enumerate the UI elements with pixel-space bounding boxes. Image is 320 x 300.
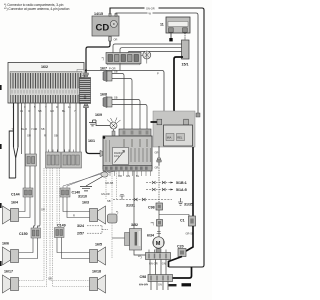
radio 16/1 main box xyxy=(103,136,152,169)
connector C1 box xyxy=(189,216,196,226)
thick wire C20 to junction node xyxy=(169,257,183,268)
wire junction to motor xyxy=(158,226,160,238)
wire from 16/2 pin m xyxy=(79,103,81,152)
svg-text:3/52: 3/52 xyxy=(131,223,138,227)
wire 3 into 16/15 xyxy=(128,51,182,53)
inline connector box A xyxy=(26,154,37,166)
svg-text:16/17: 16/17 xyxy=(4,269,13,273)
connector C140 xyxy=(60,188,70,197)
svg-text:2/57: 2/57 xyxy=(77,232,84,236)
svg-text:31/35: 31/35 xyxy=(184,202,193,206)
svg-text:6/34: 6/34 xyxy=(147,233,154,237)
svg-text:SB: SB xyxy=(107,199,111,203)
CD changer unit 14/15 xyxy=(92,16,119,36)
wire from 16/2 pin d xyxy=(29,103,31,188)
edge mark 1 xyxy=(0,85,2,90)
svg-text:C1: C1 xyxy=(180,219,185,223)
wire from 16/2 pin g xyxy=(45,103,47,152)
antenna amplifier unit shaded box xyxy=(153,111,195,147)
4-pin junction box xyxy=(157,220,163,227)
svg-text:BL: BL xyxy=(136,174,140,178)
speaker 16/5 wires xyxy=(57,238,90,259)
speaker 16/17 xyxy=(3,275,19,293)
twisted pair dotted wires column 1b xyxy=(50,168,53,287)
inline connector pair on ground rail xyxy=(134,198,146,201)
svg-text:5/1A:5: 5/1A:5 xyxy=(176,188,187,192)
connector C20 box xyxy=(178,249,186,257)
wire label W xyxy=(148,11,153,16)
wire 2 into 16/15 xyxy=(120,48,182,53)
radio 16/1 junction dot xyxy=(103,136,106,139)
wire below 3-pin strip xyxy=(119,64,121,71)
speaker 16/6 xyxy=(3,247,19,265)
svg-text:OR: OR xyxy=(118,174,122,178)
antenna lead wire down to radio xyxy=(86,108,100,154)
twisted pair dotted wires column 2 xyxy=(57,168,60,228)
wire switch up xyxy=(133,213,135,229)
wire from 16/2 pin b2 xyxy=(21,103,23,154)
wire from 16/2 pin h xyxy=(51,103,53,152)
svg-text:31/10: 31/10 xyxy=(78,195,87,199)
wire P-OR from junction to antenna unit xyxy=(86,71,164,114)
arrow glyph inside filter xyxy=(84,95,86,99)
shielded pair converge xyxy=(14,147,19,178)
wire from 16/2 pin i xyxy=(57,103,59,152)
wires below bar 2 xyxy=(151,282,168,291)
svg-text:16/1: 16/1 xyxy=(88,139,95,143)
wire from 16/2 pin c xyxy=(24,103,26,188)
wire into switch left xyxy=(112,237,125,239)
connector pair below antenna filter xyxy=(84,104,87,106)
ground point 31/31 symbol xyxy=(120,195,125,200)
edge mark 3 xyxy=(0,203,2,208)
wires from 16/8 to radio xyxy=(112,100,140,130)
wire from 16/2 pin e xyxy=(34,103,35,230)
ticks above connector boxes xyxy=(49,150,74,153)
antenna cable shield filter component xyxy=(80,78,91,104)
connector 16/15 xyxy=(182,40,190,59)
branch wire to C1 xyxy=(159,215,189,217)
dotted wire from radio pin 1 xyxy=(105,171,107,199)
speaker 16/18 xyxy=(90,275,106,293)
svg-text:16/5: 16/5 xyxy=(95,242,102,246)
suppressor on dotted wire xyxy=(108,214,118,223)
svg-text:C140: C140 xyxy=(72,190,81,194)
svg-text:14/15: 14/15 xyxy=(94,12,103,16)
connector plug 16/7 xyxy=(103,71,112,82)
svg-text:16/6: 16/6 xyxy=(2,241,9,245)
connector pair above antenna filter xyxy=(84,73,89,75)
connector block 16/2 side tab lower xyxy=(78,88,85,95)
connector C150 xyxy=(31,228,41,238)
svg-text:GN-OR: GN-OR xyxy=(101,192,110,196)
wire bulb to radio xyxy=(113,129,115,131)
connector block 16/2 side tab upper xyxy=(77,70,84,76)
wire from 16/2 pin b xyxy=(17,103,19,147)
radio 16/1 inner tick marks xyxy=(124,139,147,147)
speaker 16/3 wires xyxy=(63,197,90,218)
dotted wire below suppressor xyxy=(111,223,113,258)
svg-text:Y: Y xyxy=(12,127,14,131)
inline connector box C xyxy=(62,152,82,168)
junction bar 1 top ticks xyxy=(149,250,166,253)
svg-text:SB: SB xyxy=(114,70,118,74)
radio 16/1 top pin strip xyxy=(119,129,151,136)
inline connector box B xyxy=(46,152,61,168)
svg-text:R: R xyxy=(73,214,75,218)
thick wire C1 to C20 xyxy=(186,226,193,251)
svg-text:OR: OR xyxy=(114,38,118,42)
speaker 16/3 xyxy=(90,206,106,224)
svg-text:**): **) xyxy=(151,221,155,225)
connector plug 16/8 xyxy=(103,97,112,108)
thick wire node to junction bar 2 xyxy=(173,267,192,278)
connector ticks on motor wire xyxy=(157,232,161,234)
radio antenna socket bump xyxy=(100,151,103,157)
CD pin bottom xyxy=(109,37,112,42)
svg-text:SB: SB xyxy=(41,127,45,131)
thick wire from 16/15 down to antenna unit xyxy=(174,57,186,124)
svg-text:**): **) xyxy=(138,255,142,259)
svg-text:16/8: 16/8 xyxy=(100,93,107,97)
svg-text:16/9: 16/9 xyxy=(95,113,102,117)
reference arrow below bar 2 xyxy=(139,284,148,286)
speaker 16/4 xyxy=(3,206,19,224)
svg-text:Y: Y xyxy=(74,109,76,113)
wire from relay left pin to terminal xyxy=(170,33,172,38)
speaker 16/18 wires dashed xyxy=(50,281,90,287)
svg-text:GN-OR: GN-OR xyxy=(139,282,148,286)
wire from 16/2 pin j xyxy=(63,103,65,152)
svg-text:GR: GR xyxy=(27,134,31,138)
svg-text:GR: GR xyxy=(155,166,159,170)
switch 3/52 xyxy=(125,229,142,251)
connector block 16/2 lower band xyxy=(11,95,82,103)
junction dot at antenna lead xyxy=(85,69,87,71)
radio 16/1 bottom pin row xyxy=(103,166,152,172)
wire from 16/2 pin f xyxy=(38,103,40,230)
svg-text:GN: GN xyxy=(126,174,130,178)
edge mark 4 xyxy=(0,261,2,266)
wire from 16/2 pin l xyxy=(75,103,77,152)
svg-text:C98: C98 xyxy=(148,205,155,209)
dashed reference wire 5/1B:1 xyxy=(146,182,173,184)
dotted wire from radio pin 1b xyxy=(116,171,118,199)
svg-text:GR: GR xyxy=(48,277,52,281)
svg-text:GN: GN xyxy=(158,282,162,286)
connector block 16/2 pin field xyxy=(10,72,82,103)
svg-text:3/24: 3/24 xyxy=(77,224,84,228)
amplifier connector bump 2 xyxy=(184,119,189,125)
twisted pair dotted wires column 1 xyxy=(44,168,47,250)
connector C98 upper box xyxy=(156,203,163,210)
wire GN-OR from CD changer top to right edge down to junction xyxy=(110,8,204,267)
svg-text:*): *) xyxy=(116,210,118,214)
svg-text:P: P xyxy=(157,71,159,75)
svg-text:C20: C20 xyxy=(177,244,184,248)
ground terminal oval xyxy=(101,172,108,177)
CD pin top 1 xyxy=(109,13,111,16)
dashed reference wire 5/1A:5 xyxy=(146,189,173,191)
svg-text:16/3: 16/3 xyxy=(82,200,89,204)
wire oval to ground 31/10 xyxy=(86,177,103,187)
radio speaker output wires to left xyxy=(67,171,106,188)
dotted wire from radio pin 2 xyxy=(111,171,113,214)
radio 16/1 inner detail box xyxy=(113,148,129,165)
wire from 16/2 pin k xyxy=(69,103,71,152)
svg-text:GN-OR: GN-OR xyxy=(149,261,158,265)
svg-text:REL: REL xyxy=(177,136,183,140)
speaker 16/5 xyxy=(90,247,106,265)
bulb 16/9 xyxy=(107,118,121,130)
edge mark 2 xyxy=(0,144,2,149)
svg-text:SB: SB xyxy=(114,96,118,100)
ground symbol for bulb xyxy=(89,120,110,126)
wire W from CD changer top to antenna unit xyxy=(116,13,198,113)
thick wire from amplifier down to C1 xyxy=(192,147,194,216)
svg-text:R: R xyxy=(44,134,46,138)
wire OR from CD changer down left to antenna lead xyxy=(86,41,110,70)
svg-text:11: 11 xyxy=(160,23,164,27)
svg-text:C150: C150 xyxy=(19,232,28,236)
wire from radio pin 3 down to switch xyxy=(133,171,135,213)
speaker 16/17 wires dashed xyxy=(19,250,47,287)
wires bar1 to bar2 xyxy=(150,260,166,275)
dashed ground rail xyxy=(113,199,172,201)
svg-text:GR: GR xyxy=(41,208,45,212)
svg-text:16/7: 16/7 xyxy=(100,67,107,71)
connector C149 xyxy=(55,228,65,238)
antenna cable stub into unit xyxy=(151,121,158,123)
junction bar 1 xyxy=(146,253,171,260)
wires from 16/7 to radio xyxy=(112,74,124,130)
svg-text:16/1: 16/1 xyxy=(114,154,120,158)
svg-text:CD: CD xyxy=(96,23,110,34)
wire W terminal in unit xyxy=(196,113,200,117)
wire switch down to bar xyxy=(134,250,146,255)
bulb socket pin xyxy=(112,131,115,136)
antenna symbol circle xyxy=(141,51,151,64)
svg-text:C144: C144 xyxy=(11,192,20,196)
terminator bar a xyxy=(169,284,177,286)
CD pin top 2 xyxy=(115,13,117,16)
dashed wire from relay right pin down xyxy=(184,33,186,40)
svg-text:**) Connector at power antenna: **) Connector at power antenna, 4-pin ju… xyxy=(4,7,70,11)
svg-text:M: M xyxy=(156,241,161,247)
antenna cable connector bump xyxy=(157,119,162,125)
terminator bar b xyxy=(182,283,192,286)
antenna lead wire down to filter xyxy=(85,70,87,73)
svg-text:GN: GN xyxy=(162,261,166,265)
antenna motor 6/34 xyxy=(153,237,164,248)
shield loop xyxy=(9,131,16,178)
svg-text:16/18: 16/18 xyxy=(92,269,101,273)
speaker 16/4 wires xyxy=(19,197,30,218)
ground point 31/35 symbol xyxy=(178,198,183,205)
svg-text:Y-GR: Y-GR xyxy=(31,127,37,131)
relay 1/1 xyxy=(166,17,190,33)
amplifier inner box xyxy=(164,125,193,146)
wire from 16/2 pin a xyxy=(13,103,15,147)
strip underline xyxy=(107,64,140,65)
connector block 16/2 outline xyxy=(8,63,84,104)
svg-text:R: R xyxy=(29,109,31,113)
motor bottom connector xyxy=(156,249,161,253)
junction bar 2 xyxy=(148,275,173,282)
ground point 31/10 symbol xyxy=(80,187,92,191)
svg-text:BL-R: BL-R xyxy=(21,127,27,131)
svg-text:M/A: M/A xyxy=(167,136,172,140)
connector pair on GR wire xyxy=(157,158,160,160)
wire 1 into 16/15 xyxy=(113,44,182,53)
connector C144 xyxy=(23,188,33,197)
svg-text:SB: SB xyxy=(54,134,58,138)
speaker 16/6 wires xyxy=(19,238,38,259)
svg-text:BL: BL xyxy=(62,109,66,113)
svg-text:SB: SB xyxy=(38,109,42,113)
wire label GN-OR xyxy=(145,5,159,10)
svg-text:*): *) xyxy=(102,57,104,61)
svg-text:GR: GR xyxy=(155,151,159,155)
svg-text:GN-OR: GN-OR xyxy=(146,6,155,10)
wire GR from amplifier down xyxy=(158,146,160,165)
wire from C98 down xyxy=(158,210,160,219)
terminal blob xyxy=(169,38,172,41)
svg-text:C98: C98 xyxy=(140,275,147,279)
svg-text:16/4: 16/4 xyxy=(11,200,18,204)
svg-text:GR-SB: GR-SB xyxy=(105,181,113,185)
3-pin connector strip at radio compartment xyxy=(106,53,141,64)
radio bottom pin stubs xyxy=(106,171,151,176)
connector block 16/2 number row xyxy=(11,89,82,96)
svg-text:5/1B:1: 5/1B:1 xyxy=(176,181,187,185)
svg-text:16/2: 16/2 xyxy=(41,65,48,69)
svg-text:C149: C149 xyxy=(57,223,66,227)
svg-text:15/1: 15/1 xyxy=(182,62,189,66)
svg-text:GR: GR xyxy=(50,109,54,113)
